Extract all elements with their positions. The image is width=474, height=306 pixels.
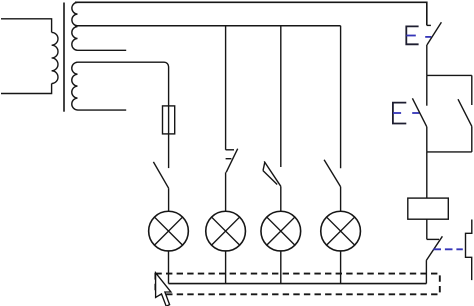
contact K1.1 blade [458, 99, 472, 126]
switch S3 wedge line [263, 171, 277, 185]
contact K2 fixed arm upper [226, 149, 234, 151]
selection box dashed rectangle [155, 274, 439, 295]
switch S3 blade [264, 161, 281, 186]
contact S5 top terminal hook [427, 24, 431, 26]
pushbutton E1 actuator glyph [406, 26, 418, 44]
wire W3 top lead to fuse branch [78, 62, 169, 106]
pushbutton E1 link dash inner (blue) [406, 35, 416, 37]
switch S3 wedge tick [263, 162, 265, 170]
wire W2 bottom stub [78, 49, 127, 51]
wire W3 bottom stub [78, 109, 127, 111]
wire through fuse F1 [168, 106, 170, 134]
bottom bus wire [169, 283, 427, 285]
wire branch 3 drop from second bus [280, 26, 282, 167]
wire right parallel branch upper [471, 75, 473, 105]
transformer T1 secondary winding W2 [72, 27, 78, 51]
wire junction horizontal [427, 74, 472, 76]
contact element right edge offset link [466, 220, 472, 281]
lamp H2 circle [206, 211, 246, 251]
relay coil K1 [408, 198, 449, 219]
wire S4 to lamp H4 [340, 187, 342, 212]
contact K2 arm lower [226, 158, 232, 160]
wire lamp H2 to bottom bus [225, 251, 227, 284]
pushbutton E2 link dash inner (blue) [393, 112, 401, 114]
wire K1.1 to lower junction [471, 126, 473, 152]
lamp H1 circle [149, 211, 189, 251]
contact S6 blade [412, 98, 426, 127]
lamp H3 cross [267, 217, 295, 245]
wire S6 to lower junction [426, 127, 428, 152]
wire K2 to lamp H2 [225, 172, 227, 211]
wire left parallel branch upper [426, 75, 428, 105]
pushbutton E2 link dash outer (blue) [412, 112, 419, 114]
wire S1 to lamp H1 [168, 188, 170, 211]
transformer T1 core [63, 3, 65, 112]
contact S5 blade (tips up-right) [427, 22, 442, 45]
mouse cursor [156, 273, 171, 306]
lamp H4 circle [321, 211, 361, 251]
switch S4 blade [324, 160, 341, 187]
transformer T1 secondary winding W1 [72, 2, 78, 26]
wire top bus L1 from W1 to right column [75, 2, 427, 25]
transformer T1 primary top lead wire [1, 19, 52, 33]
pushbutton E2 actuator glyph [393, 103, 406, 124]
NC contact K1.2 fixed arm [427, 238, 439, 240]
switch S1 blade [153, 162, 168, 188]
lamp H4 cross [327, 217, 355, 245]
wire S3 to lamp H3 [280, 186, 282, 211]
wire branch 4 drop from second bus [340, 26, 342, 168]
pushbutton E1 link dash outer (blue) [425, 36, 431, 38]
transformer T1 primary winding [52, 32, 58, 83]
wire second bus from W1/W2 to branch 4 [75, 25, 341, 27]
wire to relay coil K1 [426, 152, 428, 198]
lamp H3 circle [261, 211, 301, 251]
wire lamp H4 to bottom bus [340, 251, 342, 284]
NC contact K1.2 blade [426, 236, 442, 260]
wire lamp H1 to bottom bus [168, 251, 170, 284]
transformer T1 primary bottom lead wire [1, 84, 52, 94]
contact K2 blade [226, 149, 238, 173]
wire NC contact to bottom bus [425, 261, 427, 284]
fuse F1 [163, 106, 175, 134]
wire lower junction horizontal [427, 151, 472, 153]
wire S5 to junction node [426, 45, 428, 75]
wire branch 1 fuse to switch S1 [168, 134, 170, 168]
lamp H1 cross [154, 217, 182, 245]
lamp H2 cross [212, 217, 240, 245]
wire lamp H3 to bottom bus [280, 251, 282, 284]
NC contact K1.2 link dashes (blue) [433, 248, 462, 250]
transformer T1 secondary winding W3 [72, 62, 78, 110]
wire coil K1 to NC contact [426, 219, 428, 239]
wire branch 2 drop from second bus [225, 26, 227, 150]
